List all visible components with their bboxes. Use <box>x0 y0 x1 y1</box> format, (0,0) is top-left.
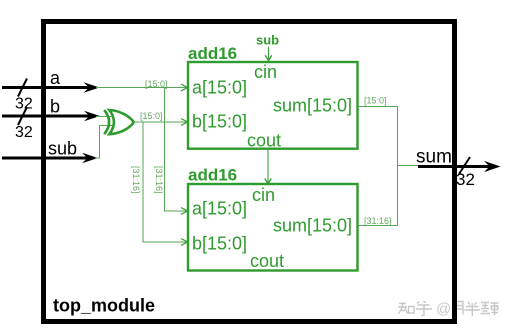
arrowhead into cin #2 <box>265 179 271 184</box>
svg-text:cin: cin <box>254 62 277 82</box>
svg-text:b[15:0]: b[15:0] <box>192 233 247 253</box>
svg-text:a: a <box>50 68 61 88</box>
svg-text:cout: cout <box>250 251 284 271</box>
output sum arrowhead <box>484 161 501 172</box>
svg-text:b: b <box>50 97 60 117</box>
arrowhead into b[15:0] #2 <box>181 239 188 246</box>
svg-text:32: 32 <box>15 124 33 141</box>
svg-text:sub: sub <box>48 139 77 159</box>
svg-text:sum: sum <box>416 147 452 168</box>
wire sub to cin #1 <box>268 47 270 61</box>
input sub arrowhead <box>82 153 98 164</box>
hu <box>416 301 432 316</box>
ban <box>465 302 481 316</box>
svg-text:[31:16]: [31:16] <box>154 166 164 194</box>
svg-text:[15:0]: [15:0] <box>364 96 387 106</box>
wire cout#1 to cin#2 <box>267 150 269 184</box>
wire sum[15:0] out of add16#1 <box>358 106 398 108</box>
svg-text:[31:16]: [31:16] <box>131 166 141 194</box>
svg-text:32: 32 <box>456 170 475 189</box>
input sub wire <box>2 157 89 160</box>
wire sub up into xor <box>95 126 112 159</box>
arrowhead into a[15:0] #2 <box>181 208 188 215</box>
svg-text:top_module: top_module <box>53 296 155 316</box>
svg-text:add16: add16 <box>188 44 237 63</box>
input a arrowhead <box>84 82 100 93</box>
input b wire <box>2 115 91 118</box>
output sum width slash <box>459 157 470 174</box>
svg-text:a[15:0]: a[15:0] <box>192 77 247 97</box>
svg-text:add16: add16 <box>188 166 237 185</box>
input b width slash <box>18 107 27 125</box>
module box top_module <box>44 22 455 322</box>
wire b stub into xor <box>96 116 112 118</box>
wire sum[31:16] out of add16#2 <box>358 225 398 227</box>
svg-text:[31:16]: [31:16] <box>364 216 392 226</box>
wire xor output to add16#1 b[15:0] <box>134 121 187 123</box>
arrowhead into a[15:0] #1 <box>181 84 188 91</box>
input a width slash <box>18 79 27 97</box>
adder block add16 #2 <box>188 184 358 271</box>
input a wire <box>2 86 90 89</box>
svg-text:sum[15:0]: sum[15:0] <box>273 215 352 235</box>
svg-text:cin: cin <box>252 185 275 205</box>
arrowhead into cin #1 <box>265 55 271 60</box>
svg-text:sum[15:0]: sum[15:0] <box>273 95 352 115</box>
svg-text:@: @ <box>436 301 451 318</box>
wire branch a[31:16] down to add16#2 <box>165 88 187 212</box>
svg-text:cout: cout <box>247 131 281 151</box>
watermark 知乎 @月半臻 <box>398 301 432 316</box>
svg-text:sub: sub <box>256 33 279 48</box>
yue <box>454 302 463 315</box>
zhen <box>481 303 491 314</box>
output sum wire <box>418 165 491 168</box>
svg-text:b[15:0]: b[15:0] <box>192 111 247 131</box>
svg-text:a[15:0]: a[15:0] <box>192 198 247 218</box>
input b arrowhead <box>84 111 100 122</box>
wire branch xor[31:16] down to add16#2 <box>143 122 186 242</box>
svg-text:32: 32 <box>15 96 33 113</box>
svg-text:[15:0]: [15:0] <box>140 111 163 121</box>
arrowhead into b[15:0] #1 <box>181 119 188 126</box>
wire sum to output <box>398 165 421 167</box>
adder block add16 #1 <box>188 62 358 149</box>
wire sum bus vertical join <box>397 107 399 226</box>
wire a to add16#1 a[15:0] <box>96 87 186 89</box>
xor gate <box>104 110 134 134</box>
zhi <box>398 302 408 314</box>
